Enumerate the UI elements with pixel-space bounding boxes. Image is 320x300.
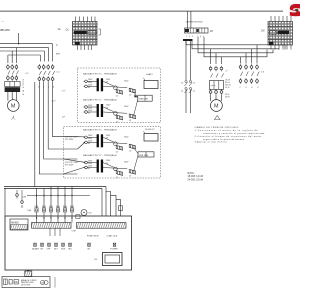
cambio instructions text (195, 126, 266, 144)
svg-text:segun indica la placa de borne: segun indica la placa de bornes. (203, 138, 245, 141)
Q2 output wires staircase (39, 82, 77, 174)
svg-text:CE: CE (14, 281, 18, 284)
svg-text:POWER: POWER (111, 249, 119, 251)
dashed enclosure box2 (64, 127, 161, 178)
fuse F2B (42, 208, 45, 212)
feed wire B (192, 41, 279, 50)
connector box D8B (138, 152, 154, 157)
wire left edge drop (4, 188, 6, 216)
cambio terminals row2 (209, 89, 223, 95)
svg-text:LED: LED (68, 249, 72, 251)
plate bracket 2 (144, 131, 158, 141)
svg-text:DISYUNTOR GV2-P: DISYUNTOR GV2-P (186, 21, 204, 23)
legend box (2, 277, 50, 288)
svg-text:.2¹: .2¹ (225, 70, 228, 73)
fuse F4B (56, 208, 59, 212)
fuse tails (37, 212, 73, 222)
cambio contacts (211, 74, 224, 78)
wires to motor M2 (211, 95, 222, 101)
arrowhead (134, 94, 137, 97)
svg-text:4a¹: 4a¹ (58, 28, 62, 31)
svg-text:V2 G: V2 G (225, 87, 230, 89)
node dot on L1 (18, 43, 20, 45)
motor branch terminals row1 (7, 64, 18, 70)
feed wire C (198, 37, 273, 53)
svg-text:1¹: 1¹ (56, 44, 58, 47)
bus left drops to motor branch (8, 48, 17, 63)
svg-text:1M: 1M (261, 30, 264, 33)
transformer row R4 (83, 154, 136, 179)
contactor block KM1 (268, 22, 293, 46)
motor M2 (211, 100, 223, 112)
connector box D9B (138, 95, 152, 101)
svg-text:0V¹: 0V¹ (62, 116, 65, 119)
svg-text:380-415V: 380-415V (0, 28, 10, 32)
svg-text:24-005 L2: 24-005 L2 (145, 129, 155, 131)
svg-text:conexiones y conectar el puent: conexiones y conectar el puente suminist… (203, 132, 265, 135)
bus right drops to Q2 (40, 44, 52, 62)
contact K1 (181, 80, 196, 86)
breaker block Q1 (73, 22, 98, 46)
svg-text:TOP 230V: TOP 230V (65, 139, 74, 141)
wire (190, 11, 192, 28)
svg-text:10A: 10A (27, 209, 31, 212)
display window inner (105, 255, 120, 263)
svg-text:D8B D8B: D8B D8B (139, 155, 149, 157)
bus bar dark (183, 39, 193, 41)
feed wire D (204, 37, 267, 57)
Q1 stubs bottom (77, 45, 91, 50)
svg-text:NOTA:: NOTA: (188, 172, 195, 175)
svg-text:ALARM: ALARM (32, 248, 39, 251)
terminal strip right (77, 223, 127, 229)
KM1 stubs bottom (271, 45, 291, 50)
taps to cambio branch (211, 49, 222, 64)
fuse block E.B.F (5, 82, 21, 93)
svg-text:RUN: RUN (61, 249, 66, 251)
svg-text:1-Desconectar el motor de la r: 1-Desconectar el motor de la regleta de (195, 129, 259, 132)
disyuntor strip QM (185, 28, 209, 33)
junction dots (36, 217, 73, 218)
feed wire A (186, 41, 285, 50)
panel enclosure (5, 216, 132, 270)
row3 left tap labels (65, 137, 79, 167)
transformer row R3 (83, 129, 136, 154)
fuse F5B (63, 208, 66, 212)
distribution bus line (23, 194, 91, 198)
svg-text:MAINS: MAINS (11, 221, 19, 224)
taps to Q3 (241, 45, 258, 64)
switch Q3 terminals row1 (239, 64, 258, 70)
left supply bus L2 (0, 47, 49, 49)
svg-text:M: M (11, 104, 16, 110)
svg-text:M: M (214, 104, 219, 110)
wires below strip (50, 228, 60, 236)
led labels (32, 248, 118, 251)
motor M1 (8, 100, 20, 112)
mains filter box (10, 219, 28, 230)
svg-text:CAMBIO DE TENSION 230V/400V: CAMBIO DE TENSION 230V/400V (195, 126, 240, 129)
svg-text:LOAD 55 A: LOAD 55 A (107, 234, 118, 237)
top border line (0, 10, 283, 12)
Q3 slashes (241, 72, 260, 77)
svg-text:PG: PG (94, 259, 97, 261)
svg-text:kW: kW (89, 213, 92, 215)
svg-text:15-008: 12 kW: 15-008: 12 kW (188, 176, 204, 178)
switch slashes (8, 71, 19, 75)
terminal name labels (225, 80, 231, 99)
fuse F6B (70, 208, 73, 212)
svg-text:3-Ajustar el rele termico.: 3-Ajustar el rele termico. (195, 141, 228, 144)
svg-text:CHR: CHR (72, 231, 77, 233)
terminal strip left (32, 223, 72, 229)
control wire down right (190, 41, 192, 80)
mains double line upper (4, 186, 106, 188)
svg-text:人: 人 (11, 116, 16, 121)
wire drop from top line to disyuntor (187, 11, 189, 28)
switch Q2 terminals row1 (38, 64, 54, 70)
svg-text:7.0¹: 7.0¹ (62, 90, 66, 93)
svg-text:50 Hz IP54: 50 Hz IP54 (21, 285, 30, 287)
led row (34, 243, 116, 246)
svg-text:50 Hz: 50 Hz (225, 97, 230, 99)
wire entries into box2 (64, 137, 85, 174)
Q2 slashes (39, 71, 54, 75)
control wire down left (185, 41, 187, 80)
meter circle (76, 210, 92, 219)
surge components (16, 190, 24, 207)
plate bracket 1 (144, 78, 158, 89)
svg-text:cos¹: cos¹ (52, 100, 56, 103)
delta symbol (214, 116, 220, 120)
wire from label to L1 (18, 33, 20, 44)
transformer row R2 (83, 98, 136, 123)
fuse labels row (34, 206, 74, 208)
converge wires to D8B (134, 148, 139, 172)
transformer row R1 (83, 73, 136, 98)
display window outer (103, 253, 123, 266)
fuse F1B (35, 208, 38, 212)
wire drop right a (105, 187, 107, 217)
svg-text:D-AB 2.: D-AB 2. (146, 73, 154, 76)
fold mark (54, 277, 56, 288)
svg-text:4H: 4H (210, 30, 213, 33)
cambio terminals row1 (209, 66, 223, 72)
svg-text:↓: ↓ (185, 97, 186, 100)
Q1 right bracket (99, 29, 101, 35)
nota text (188, 172, 204, 181)
fuse feeder wires (37, 187, 73, 208)
inline fuse on wire (119, 206, 123, 211)
left supply bus L3 (0, 50, 44, 52)
KM1 stubs top (271, 16, 291, 22)
terminal change block (209, 81, 223, 90)
svg-text:FUSE 500 B: FUSE 500 B (87, 235, 99, 237)
breaker Q1 stubs top (76, 17, 96, 22)
svg-text:1 3 5 . 2 4 6: 1 3 5 . 2 4 6 (186, 36, 205, 38)
svg-text:2-Conectar el bloque de conexi: 2-Conectar el bloque de conexiones del m… (195, 135, 262, 138)
wires to motor (8, 92, 17, 101)
svg-text:E.B.F/05S: E.B.F/05S (23, 78, 25, 95)
motor branch terminals row2 (7, 75, 18, 81)
contact K2 (181, 87, 196, 93)
left supply bus L4 (8, 54, 41, 56)
svg-text:><>: ><> (210, 84, 216, 88)
cable gland below panel (25, 270, 32, 277)
staircase wires right (106, 192, 121, 217)
neutral wire down (34, 82, 36, 187)
control wires continue (186, 90, 191, 113)
switch Q2 terminals row2 (38, 76, 54, 82)
fuse F3B (49, 208, 52, 212)
switch Q3 terminals row2 (239, 78, 258, 84)
wire drop right b (101, 188, 103, 216)
dashed enclosure box1 (78, 68, 161, 123)
svg-text:am¹: am¹ (56, 53, 60, 56)
mains double line lower (4, 187, 102, 189)
svg-text:24-005: 22 kW: 24-005: 22 kW (188, 179, 204, 181)
converge wires to D9B (134, 92, 138, 116)
left supply bus L1 (0, 43, 52, 45)
svg-text:D9B D9B: D9B D9B (139, 99, 149, 101)
svg-text:TOP 230V: TOP 230V (65, 165, 74, 167)
logo S (red) (289, 4, 300, 17)
